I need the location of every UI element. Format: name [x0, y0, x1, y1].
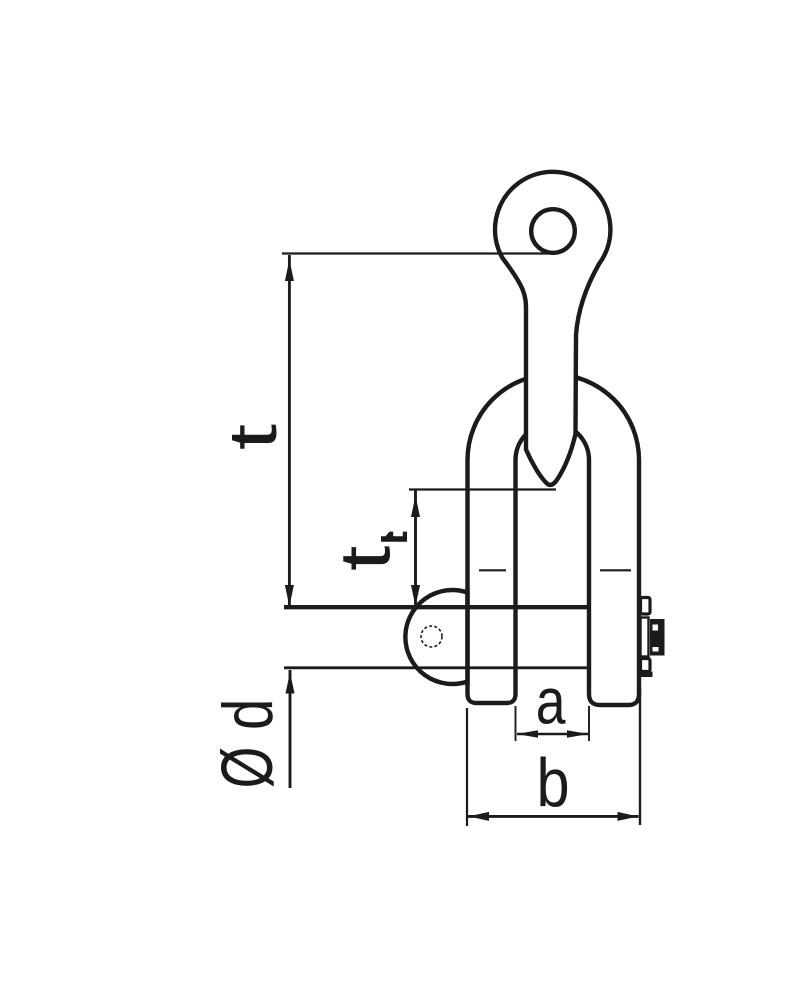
- nut foot bar: [640, 672, 653, 678]
- leg tick left: [479, 569, 506, 571]
- dimension d line: [289, 670, 292, 788]
- arrow b left: [469, 812, 490, 821]
- shackle body (bow + legs): [468, 374, 640, 705]
- extension line a left: [515, 706, 517, 741]
- arrow b right: [618, 812, 639, 821]
- leg outer line over head: [465, 588, 469, 686]
- eye with shank: [495, 172, 610, 485]
- pin head arc: [405, 590, 467, 684]
- label t1 subscript: [381, 532, 407, 542]
- nut notch top: [653, 625, 659, 631]
- pin bottom edge: [284, 666, 589, 669]
- nut top collar square: [641, 598, 651, 615]
- extension line t1 top: [409, 488, 556, 490]
- arrow a left: [517, 730, 539, 737]
- nut notch bottom: [653, 647, 659, 652]
- dimension t line: [288, 255, 291, 606]
- arrow t1 up: [411, 496, 420, 518]
- extension line a right: [588, 706, 590, 741]
- svg-text:t: t: [216, 424, 291, 451]
- arrow t1 down: [411, 585, 420, 607]
- arrow d up: [286, 672, 295, 694]
- eye hole: [531, 209, 575, 253]
- dimension b line: [468, 815, 639, 818]
- nut bottom collar square: [641, 659, 651, 672]
- extension line b right: [639, 688, 641, 825]
- extension line b left: [466, 708, 468, 826]
- nut block: [650, 619, 665, 656]
- svg-text:t: t: [326, 545, 406, 571]
- arrow t up: [285, 260, 294, 282]
- leg tick right: [600, 569, 631, 571]
- svg-text:d: d: [208, 699, 288, 730]
- dimension t1 line: [414, 490, 417, 606]
- pin head hole (dotted): [421, 626, 442, 647]
- arrow a right: [567, 730, 589, 737]
- svg-text:b: b: [537, 744, 570, 821]
- nut collar strip: [641, 618, 649, 657]
- svg-text:Ø: Ø: [206, 747, 288, 789]
- extension line t top: [282, 252, 554, 254]
- arrow t down: [285, 585, 294, 607]
- svg-text:a: a: [536, 664, 567, 737]
- pin top edge: [284, 605, 589, 609]
- dimension a line: [517, 733, 588, 736]
